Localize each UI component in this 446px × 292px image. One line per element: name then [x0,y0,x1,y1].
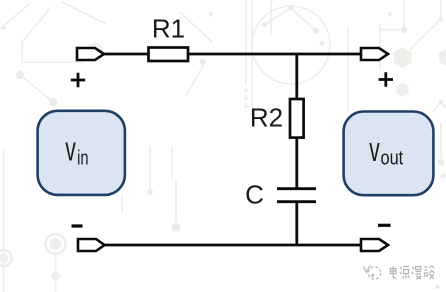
svg-text:R2: R2 [250,103,283,133]
minus sign left [72,224,83,227]
terminal bottom-right [361,239,388,251]
terminal top-left [77,48,104,60]
node vin box [38,111,125,195]
terminal top-right [361,48,388,60]
hexagons right side [394,47,412,68]
wire middle branch (node to capacitor) [295,54,298,188]
wire top (vin+ to vout+) [104,53,361,56]
svg-text:C: C [245,179,264,209]
char 谈 [424,266,434,279]
svg-text:out: out [381,147,404,169]
capacitor C plate top [277,187,316,190]
resistor R1 [149,48,189,62]
wire capacitor to bottom [295,202,298,246]
minus sign right [378,224,391,227]
plus sign right [379,72,393,86]
label vout [369,131,403,169]
svg-text:in: in [77,147,88,169]
plus sign left [71,73,85,87]
watermark logo [364,266,381,280]
svg-text:R1: R1 [152,14,185,44]
char 电 [390,266,396,278]
svg-text:v: v [65,131,75,169]
node vout box [344,112,434,196]
balloons bottom-left [0,234,66,280]
resistor R2 [290,99,304,138]
char 漫 [412,267,421,280]
terminal bottom-left [78,239,105,251]
faint hexagon behind left terminal [87,42,103,61]
svg-text:v: v [369,131,380,169]
label vin [65,131,88,170]
watermark text 电源漫谈 (drawn strokes) [390,266,434,279]
capacitor C plate bottom [277,200,316,203]
wire bottom (vin- to vout-) [104,244,361,247]
char 源 [400,267,410,279]
